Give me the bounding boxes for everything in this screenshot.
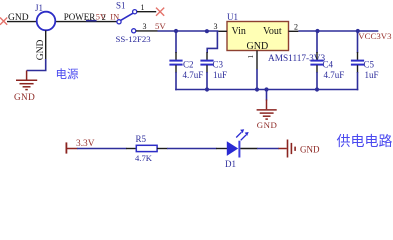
svg-text:供电电路: 供电电路 <box>337 134 393 150</box>
wire: D1 to gnd <box>257 148 279 150</box>
R5 right pin <box>157 148 168 150</box>
capacitor C3 <box>200 61 213 65</box>
svg-text:GND: GND <box>14 92 35 102</box>
junction node C4/gnd <box>315 87 319 91</box>
right ground stub <box>279 148 287 150</box>
U1 pin 3 line <box>218 30 227 32</box>
C4 top pin <box>316 52 318 60</box>
svg-text:2: 2 <box>102 13 106 22</box>
svg-text:SS-12F23: SS-12F23 <box>116 34 152 44</box>
ground symbol (right, rotated) <box>288 140 296 158</box>
svg-text:1: 1 <box>141 3 145 12</box>
svg-text:Vout: Vout <box>263 26 282 37</box>
svg-text:电源: 电源 <box>56 67 79 81</box>
svg-text:C5: C5 <box>364 60 375 70</box>
capacitor C4 <box>310 61 323 65</box>
svg-text:GND: GND <box>36 39 46 60</box>
wire C5 to gnd rail <box>357 72 359 90</box>
junction node U1 gnd <box>255 87 259 91</box>
wire: C2 drop from rail <box>175 31 177 53</box>
svg-text:GND: GND <box>8 13 29 23</box>
wire: U1 GND to rail <box>256 69 258 90</box>
C3 top pin <box>206 52 208 60</box>
wire: J1 bottom pin down <box>45 30 47 59</box>
switch S1 pin1 circle <box>133 10 137 14</box>
power port 3.3V bar <box>65 142 67 153</box>
pin 1 line <box>137 11 156 13</box>
U1 GND pin line <box>256 51 258 70</box>
C2 top pin <box>175 52 177 60</box>
wire C3 to gnd rail <box>206 72 208 90</box>
ground symbol (main GND) <box>257 100 277 120</box>
svg-text:4.7K: 4.7K <box>135 153 153 163</box>
svg-text:1uF: 1uF <box>365 70 379 80</box>
svg-text:Vin: Vin <box>232 26 246 37</box>
C4 bottom pin <box>316 65 318 73</box>
capacitor C2 <box>169 61 182 65</box>
pin 3 line <box>136 30 158 32</box>
D1 cathode pin <box>240 148 257 150</box>
junction node C3/gnd <box>205 87 209 91</box>
svg-text:2: 2 <box>294 22 298 31</box>
wire: C3 connection zigzag <box>207 31 217 53</box>
svg-text:S1: S1 <box>116 0 126 10</box>
LED D1 emission arrow 2 <box>241 132 249 140</box>
wire: R5 to D1 <box>167 148 217 150</box>
svg-text:C3: C3 <box>213 60 224 70</box>
LED D1 emission arrow 1 <box>236 129 244 137</box>
no-connect X on S1 pin1 <box>156 8 164 16</box>
switch S1 lever <box>121 13 133 20</box>
LED D1 cathode bar <box>238 141 240 158</box>
junction node gnd stem <box>264 87 268 91</box>
wire: 3.3V output rail <box>298 30 378 32</box>
no-connect X on J1 GND pin <box>0 18 7 25</box>
junction node at C5 <box>356 29 360 33</box>
wire: 5V rail <box>158 30 219 32</box>
ground symbol (power source GND) <box>16 71 37 90</box>
svg-text:R5: R5 <box>136 134 147 144</box>
svg-text:5V: 5V <box>155 21 166 31</box>
C2 bottom pin <box>175 65 177 73</box>
svg-text:POWER: POWER <box>64 12 96 22</box>
U1 pin 2 line <box>289 30 299 32</box>
svg-text:GND: GND <box>247 41 269 52</box>
svg-text:C4: C4 <box>323 60 334 70</box>
switch S1 pin3 circle <box>132 29 136 33</box>
svg-text:D1: D1 <box>225 159 236 169</box>
svg-text:C2: C2 <box>183 59 194 69</box>
svg-text:GND: GND <box>257 120 278 130</box>
svg-text:U1: U1 <box>227 12 238 22</box>
svg-text:3: 3 <box>143 22 147 31</box>
wire: gnd stem <box>266 90 268 101</box>
C5 bottom pin <box>357 65 359 73</box>
wire: C4 drop <box>316 31 318 53</box>
wire C4 to gnd rail <box>316 72 318 90</box>
connector J1 circle <box>37 12 56 31</box>
C3 bottom pin <box>206 65 208 73</box>
svg-text:4.7uF: 4.7uF <box>183 70 204 80</box>
junction node near C3 <box>205 29 209 33</box>
switch S1 pivot circle pin2 <box>117 20 121 24</box>
R5 left pin <box>126 148 137 150</box>
junction node at C4 <box>315 29 319 33</box>
3.3V port stub <box>66 148 77 150</box>
C5 top pin <box>357 52 359 60</box>
regulator U1 body <box>227 22 289 51</box>
resistor R5 body <box>136 145 157 151</box>
svg-text:1uF: 1uF <box>213 70 227 80</box>
wire: short blue net segment under POWER label <box>86 20 97 22</box>
svg-text:3: 3 <box>214 22 218 31</box>
wire C2 to gnd rail <box>175 72 177 90</box>
svg-text:4.7uF: 4.7uF <box>324 70 345 80</box>
wire: J1 GND pin to POWER pin horizontal <box>7 21 117 23</box>
svg-text:GND: GND <box>300 144 320 154</box>
D1 anode pin <box>216 148 227 150</box>
wire: 3.3V to R5 <box>77 148 127 150</box>
capacitor C5 <box>351 61 364 65</box>
svg-text:VCC3V3: VCC3V3 <box>358 31 392 41</box>
svg-text:1: 1 <box>246 55 255 59</box>
wire: ground rail <box>175 89 358 91</box>
junction node at C2 <box>174 29 178 33</box>
wire: C5 drop <box>357 31 359 53</box>
LED D1 triangle <box>227 141 238 156</box>
wire: down to corner <box>27 59 46 71</box>
